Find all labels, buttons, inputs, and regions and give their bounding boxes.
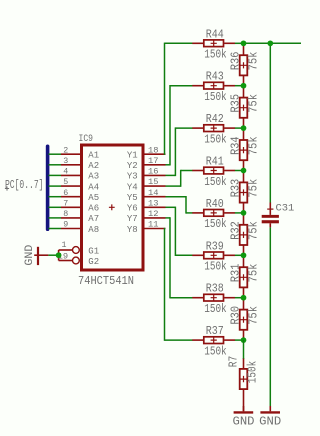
svg-text:R31: R31 — [229, 264, 242, 283]
wire Y3 (pin 16) to node 2 — [166, 127, 193, 176]
capacitor C31 — [262, 202, 295, 227]
resistor R31 75k — [229, 255, 260, 297]
svg-text:4: 4 — [63, 167, 68, 177]
svg-text:6: 6 — [63, 188, 68, 198]
svg-text:IC9: IC9 — [79, 133, 94, 145]
pin 13 (Y6) — [127, 198, 166, 213]
svg-text:A8: A8 — [88, 224, 99, 235]
svg-text:150k: 150k — [204, 261, 227, 274]
wire R42 to node dot — [235, 127, 244, 129]
resistor R39 150k — [192, 240, 235, 273]
junction dot node 7 — [241, 337, 247, 343]
wire bus to pin 5 — [49, 185, 62, 187]
resistor R30 75k — [229, 298, 260, 340]
svg-text:R36: R36 — [229, 52, 242, 71]
svg-text:15: 15 — [148, 177, 159, 187]
junction dot node 5 — [241, 252, 247, 258]
svg-text:A3: A3 — [88, 171, 99, 182]
svg-text:150k: 150k — [204, 303, 227, 316]
svg-text:14: 14 — [148, 188, 159, 198]
svg-text:C31: C31 — [276, 202, 295, 213]
wire C31 to GND — [269, 227, 271, 406]
svg-text:75k: 75k — [248, 179, 261, 198]
junction dot node 0 — [241, 40, 247, 46]
svg-text:150k: 150k — [204, 218, 227, 231]
wire bus to pin 8 — [49, 217, 62, 219]
pin 8 (A7) — [61, 209, 99, 224]
wire R41 to node dot — [235, 170, 244, 172]
wire R39 to node dot — [235, 254, 244, 256]
svg-text:13: 13 — [148, 198, 159, 208]
svg-text:R33: R33 — [229, 179, 242, 198]
pin 12 (Y7) — [127, 209, 166, 224]
pin 9 (A8) — [61, 220, 99, 235]
svg-text:R34: R34 — [229, 136, 242, 155]
svg-text:Y3: Y3 — [127, 171, 138, 182]
wire GND to G1/G2 junction — [48, 254, 58, 256]
ground GND (bottom left) — [233, 406, 255, 428]
svg-text:R35: R35 — [229, 94, 242, 113]
bus label origin cross — [5, 186, 9, 190]
junction dot node 3 — [241, 168, 247, 174]
resistor R43 150k — [192, 71, 235, 104]
svg-text:1: 1 — [62, 240, 67, 250]
wire Y7 (pin 12) to node 6 — [166, 217, 193, 298]
pin 5 (A4) — [61, 177, 99, 192]
resistor R38 150k — [192, 283, 235, 316]
svg-text:5: 5 — [63, 177, 68, 187]
svg-text:150k: 150k — [204, 91, 227, 104]
svg-text:74HCT541N: 74HCT541N — [78, 275, 134, 288]
resistor R36 75k — [229, 43, 260, 85]
junction dot node 1 — [241, 83, 247, 89]
svg-text:PC[0..7]: PC[0..7] — [5, 179, 44, 192]
svg-text:Y6: Y6 — [127, 203, 138, 214]
svg-text:17: 17 — [148, 156, 159, 166]
wire node 0 to C31 — [269, 43, 271, 203]
wire bus to pin 2 — [49, 153, 62, 155]
wire bus to pin 3 — [49, 164, 62, 166]
resistor R41 150k — [192, 156, 235, 189]
wire Y1 (pin 18) to node 0 — [165, 43, 193, 155]
svg-text:R40: R40 — [206, 198, 224, 211]
svg-text:A5: A5 — [88, 192, 99, 203]
resistor R40 150k — [192, 198, 235, 231]
svg-text:R41: R41 — [206, 156, 224, 169]
svg-text:150k: 150k — [204, 49, 227, 62]
junction dot node 4 — [241, 210, 247, 216]
svg-text:150k: 150k — [204, 345, 227, 358]
resistor R42 150k — [192, 113, 235, 146]
junction dot node 2 — [241, 125, 247, 131]
svg-text:R38: R38 — [206, 283, 224, 296]
svg-text:R30: R30 — [229, 306, 242, 325]
pin 4 (A3) — [61, 167, 99, 182]
pin 11 (Y8) — [127, 220, 166, 235]
pin 7 (A6) — [61, 198, 99, 213]
wire Y4 (pin 15) to node 3 — [166, 170, 193, 187]
pin 1 (G1) with inversion bubble — [59, 240, 100, 261]
svg-text:75k: 75k — [248, 263, 261, 282]
wire Y6 (pin 13) to node 5 — [166, 207, 193, 256]
svg-text:8: 8 — [63, 209, 68, 219]
svg-text:75k: 75k — [248, 306, 261, 325]
pin 3 (A2) — [61, 156, 99, 171]
bus PC[0..7] — [46, 146, 50, 229]
pin 19 (G2) with inversion bubble — [58, 252, 100, 267]
resistor R35 75k — [229, 86, 260, 128]
svg-text:G2: G2 — [88, 256, 99, 267]
resistor R7 150k — [228, 356, 260, 412]
svg-text:3: 3 — [63, 156, 68, 166]
svg-text:Y2: Y2 — [127, 160, 138, 171]
junction dot node 6 — [241, 295, 247, 301]
svg-text:9: 9 — [63, 220, 68, 230]
svg-text:150k: 150k — [204, 133, 227, 146]
junction dot node 0 at cap rail — [267, 40, 273, 46]
resistor R33 75k — [229, 171, 260, 213]
svg-text:R44: R44 — [206, 28, 224, 41]
svg-text:Y1: Y1 — [127, 150, 138, 161]
svg-text:GND: GND — [233, 415, 255, 428]
svg-text:R37: R37 — [206, 325, 224, 338]
wire R38 to node dot — [235, 297, 244, 299]
wire output net to right edge — [244, 42, 303, 44]
resistor R34 75k — [229, 128, 260, 170]
resistor R44 150k — [192, 28, 235, 61]
wire R43 to node dot — [235, 85, 244, 87]
svg-text:150k: 150k — [246, 361, 259, 384]
IC IC9 74HCT541N body — [82, 145, 144, 270]
pin 18 (Y1) — [127, 145, 166, 160]
ground GND (bottom right) — [259, 406, 281, 428]
svg-text:A4: A4 — [88, 181, 99, 192]
svg-text:G1: G1 — [88, 245, 99, 256]
svg-text:GND: GND — [24, 244, 36, 265]
wire bus to pin 7 — [49, 206, 62, 208]
pin 14 (Y5) — [127, 188, 166, 203]
svg-text:R7: R7 — [228, 356, 241, 368]
pin 6 (A5) — [61, 188, 99, 203]
svg-text:75k: 75k — [248, 136, 261, 155]
pin 17 (Y2) — [127, 156, 166, 171]
svg-text:Y5: Y5 — [127, 192, 138, 203]
wire Y8 (pin 11) to node 7 — [165, 228, 193, 341]
wire Y5 (pin 14) to node 4 — [166, 196, 193, 214]
svg-text:7: 7 — [63, 198, 68, 208]
wire bus to pin 9 — [49, 228, 62, 230]
svg-text:R43: R43 — [206, 71, 224, 84]
IC9 origin cross — [109, 204, 115, 210]
svg-text:R42: R42 — [206, 113, 224, 126]
wire R40 to node dot — [235, 212, 244, 214]
wire R44 to node dot — [235, 42, 244, 44]
resistor R32 75k — [229, 213, 260, 255]
svg-text:150k: 150k — [204, 176, 227, 189]
svg-text:75k: 75k — [248, 94, 261, 113]
resistor R37 150k — [192, 325, 235, 358]
junction dot G1/G2 net — [56, 252, 62, 258]
svg-text:75k: 75k — [248, 221, 261, 240]
svg-text:16: 16 — [148, 167, 159, 177]
wire R37 to node dot — [235, 339, 244, 341]
svg-text:R32: R32 — [229, 221, 242, 240]
svg-text:R39: R39 — [206, 240, 224, 253]
wire node 7 to R7 — [243, 340, 245, 359]
svg-text:18: 18 — [148, 145, 159, 155]
wire Y2 (pin 17) to node 1 — [166, 85, 193, 166]
ground GND (left, rotated) — [34, 247, 48, 265]
svg-text:Y7: Y7 — [127, 213, 138, 224]
svg-text:A2: A2 — [88, 160, 99, 171]
svg-text:Y8: Y8 — [127, 224, 138, 235]
pin 15 (Y4) — [127, 177, 166, 192]
wire bus to pin 6 — [49, 196, 62, 198]
svg-text:11: 11 — [148, 220, 159, 230]
pin 16 (Y3) — [127, 167, 166, 182]
wire bus to pin 4 — [49, 174, 62, 176]
svg-text:A7: A7 — [88, 213, 99, 224]
svg-text:A1: A1 — [88, 150, 99, 161]
svg-text:Y4: Y4 — [127, 181, 138, 192]
svg-text:75k: 75k — [248, 51, 261, 70]
svg-text:2: 2 — [63, 145, 68, 155]
svg-text:A6: A6 — [88, 203, 99, 214]
pin 2 (A1) — [61, 145, 99, 160]
svg-text:12: 12 — [148, 209, 159, 219]
svg-text:GND: GND — [259, 415, 281, 428]
